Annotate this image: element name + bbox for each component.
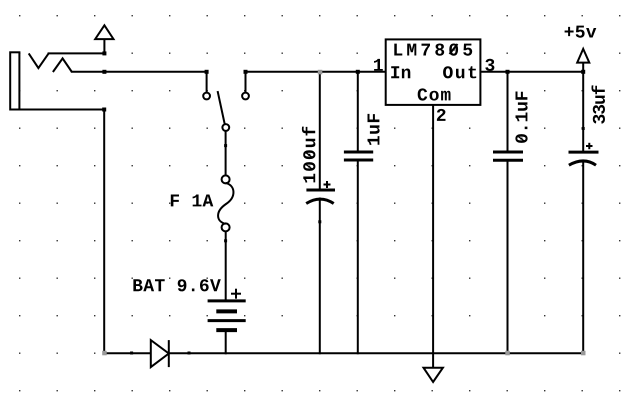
wire C4 bottom xyxy=(582,162,584,353)
wire top rail middle segment xyxy=(246,71,386,73)
capacitor C1 100uf xyxy=(306,190,335,204)
wire pin2 to ground xyxy=(432,105,434,368)
pin 2 label xyxy=(437,109,446,121)
junction dots grey xyxy=(102,70,585,356)
label F 1A xyxy=(171,195,214,207)
jack J1 xyxy=(10,52,19,109)
battery B1 xyxy=(208,301,246,330)
arrow (jack tip up-arrow) xyxy=(95,25,113,39)
ground symbol xyxy=(424,368,443,382)
wire top rail right segment xyxy=(480,71,583,73)
diode D1 xyxy=(151,340,169,367)
wire C3 top xyxy=(507,72,509,151)
label LM7805 xyxy=(394,44,472,56)
small wire ticks xyxy=(130,127,585,355)
wire fuse to battery xyxy=(225,231,227,300)
wire bottom rail xyxy=(104,352,583,354)
wire C4 column xyxy=(582,63,584,151)
wire C1 top xyxy=(319,72,321,189)
pin 3 label xyxy=(485,59,494,71)
label 100uf xyxy=(302,127,316,183)
label BAT 9.6V xyxy=(133,279,220,291)
capacitor C2 1uF xyxy=(344,152,373,160)
capacitor C4 33uf xyxy=(569,152,599,165)
label 0.1uF xyxy=(515,92,527,143)
slash of zero in LM7805 xyxy=(450,44,458,54)
label Com xyxy=(418,88,451,100)
switch S1 xyxy=(203,91,249,131)
jack tip contact xyxy=(29,53,49,68)
wire C3 bottom xyxy=(507,162,509,354)
wire switch right drop xyxy=(245,72,247,93)
wire switch pole to fuse xyxy=(225,131,227,176)
slash of zero in 0.1uF xyxy=(518,136,524,141)
capacitor C3 0.1uF xyxy=(493,152,523,160)
+5v arrow xyxy=(577,49,589,63)
pin 1 label xyxy=(374,59,383,71)
wire battery to bottom rail xyxy=(225,332,227,354)
wire top rail left segment xyxy=(72,71,207,73)
C4 plus sign xyxy=(586,143,593,149)
C1 plus sign xyxy=(324,181,331,188)
wire jack sleeve bottom xyxy=(20,110,105,354)
regulator U1 LM7805 box xyxy=(386,39,481,105)
label In xyxy=(391,66,410,78)
slash of zeros in 100uf xyxy=(306,152,312,169)
wire C2 bottom xyxy=(357,162,359,354)
label Out xyxy=(443,66,476,78)
label 1uF xyxy=(368,114,380,145)
label +5v xyxy=(565,26,597,38)
wire jack tip line xyxy=(49,39,105,53)
wire C2 top xyxy=(357,72,359,151)
label 33uf xyxy=(592,85,606,123)
wire switch left drop xyxy=(206,72,208,93)
battery plus sign xyxy=(231,289,241,299)
fuse F1 xyxy=(218,175,233,231)
wire C1 bottom xyxy=(319,199,321,354)
junction dots xyxy=(102,51,585,111)
jack ring contact xyxy=(53,58,72,72)
